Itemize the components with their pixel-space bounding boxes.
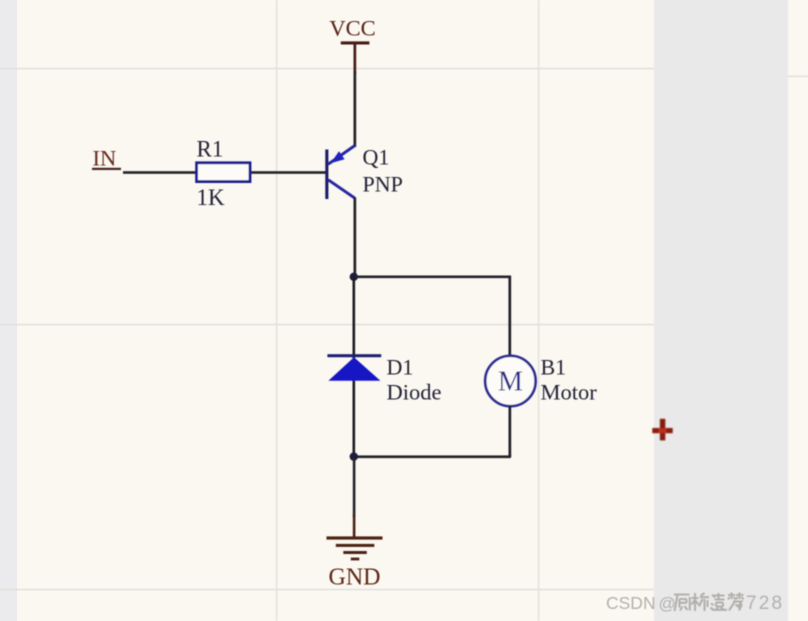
transistor Q1 emitter diagonal — [328, 146, 355, 165]
transistor Q1 emitter arrow — [331, 151, 345, 163]
svg-text:PNP: PNP — [363, 172, 403, 197]
wire junction B to ground — [353, 457, 356, 517]
red cursor cross horizontal arm — [652, 428, 672, 433]
svg-text:GND: GND — [329, 565, 381, 591]
svg-text:M: M — [498, 367, 523, 398]
watermark hanzi meng — [728, 593, 744, 611]
svg-text:1K: 1K — [197, 185, 226, 210]
watermark hanzi qiao — [692, 593, 710, 611]
wire bottom loop horizontal — [354, 455, 511, 458]
svg-text:CSDN: CSDN — [606, 593, 656, 613]
ground bar 1 — [327, 536, 383, 539]
node junction A dot — [350, 273, 358, 281]
wire collector vertical — [354, 198, 357, 278]
ground bar 3 — [343, 551, 367, 554]
resistor R1 body — [197, 163, 250, 182]
motor B1 circle — [485, 356, 535, 406]
VCC stem — [354, 44, 357, 74]
wire IN to resistor — [123, 171, 197, 174]
svg-text:Q1: Q1 — [363, 145, 390, 170]
svg-text:Motor: Motor — [541, 380, 598, 405]
wire resistor to base — [251, 171, 326, 174]
ground stem — [353, 514, 356, 538]
watermark hanzi yi — [711, 593, 728, 611]
wire VCC to emitter — [354, 72, 357, 147]
svg-text:@: @ — [659, 594, 676, 613]
svg-text:IN: IN — [93, 146, 117, 171]
VCC bar — [341, 41, 370, 44]
wire diode branch vertical — [353, 277, 356, 457]
svg-text:D1: D1 — [387, 355, 414, 380]
transistor Q1 collector diagonal — [328, 180, 355, 198]
transistor Q1 base bar — [325, 150, 328, 200]
wire junction A to motor top — [354, 277, 510, 356]
diode D1 cathode bar — [327, 354, 381, 357]
svg-text:R1: R1 — [197, 137, 224, 162]
ground bar 2 — [336, 544, 375, 547]
svg-text:Diode: Diode — [387, 380, 442, 405]
port IN underline — [92, 168, 121, 170]
wire motor bottom — [509, 406, 512, 457]
red cursor cross vertical arm — [660, 419, 665, 441]
diode D1 triangle — [328, 357, 380, 381]
ground bar 4 — [351, 558, 360, 561]
node junction B dot — [350, 452, 358, 460]
svg-text:B1: B1 — [541, 355, 567, 380]
svg-text:VCC: VCC — [329, 16, 375, 41]
watermark hanzi lang — [674, 595, 690, 612]
svg-text:728: 728 — [746, 593, 784, 614]
red cursor cross bright center — [659, 428, 667, 433]
